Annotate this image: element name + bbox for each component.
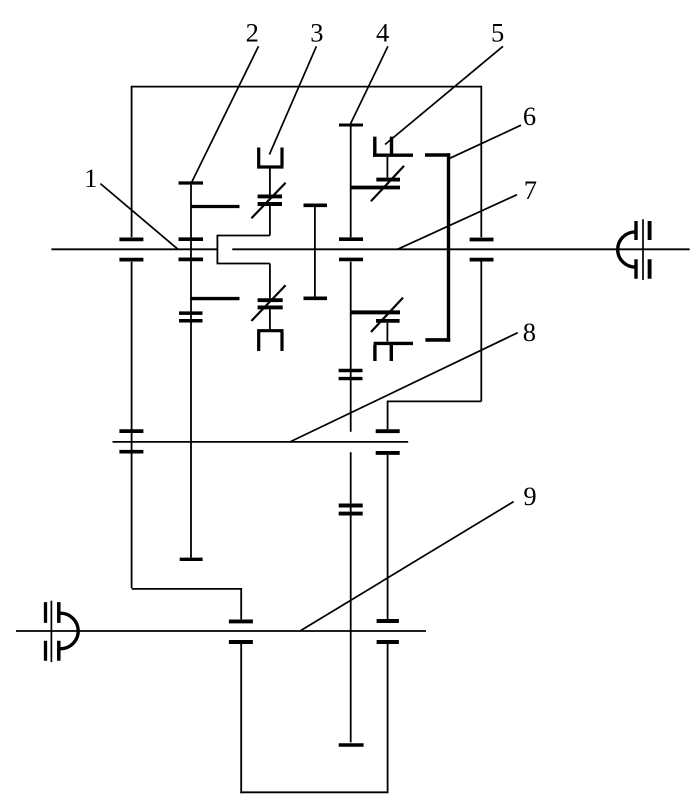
gear 4 top tooth dash xyxy=(339,124,363,127)
gear 2 top tooth dash xyxy=(179,181,204,184)
bearing B5 shaft III left xyxy=(229,621,253,642)
svg-text:3: 3 xyxy=(310,17,323,47)
gear 4 hub dash below shaft xyxy=(339,258,363,262)
svg-text:8: 8 xyxy=(523,317,536,347)
leader line 3 xyxy=(269,46,316,154)
leader line 4 xyxy=(351,46,388,123)
gear 5 lower stem xyxy=(386,323,388,342)
leader line 8 xyxy=(290,333,518,442)
leader line 7 xyxy=(398,195,518,250)
right coupling inner bars xyxy=(634,221,637,279)
leader line 5 xyxy=(385,46,503,144)
svg-text:7: 7 xyxy=(524,175,537,205)
gear 9 bottom tooth dash xyxy=(339,743,364,747)
housing right step xyxy=(388,400,482,402)
bearing B2 shaft I right xyxy=(470,240,494,260)
idler T-line bottom cap xyxy=(304,296,328,300)
clutch 3 lower bars xyxy=(258,300,283,307)
housing left wall xyxy=(132,86,242,589)
leader line 9 xyxy=(300,502,514,631)
clutch 5 upper wide bar xyxy=(351,186,400,190)
gear 2 hub dash below shaft xyxy=(179,258,204,262)
svg-text:4: 4 xyxy=(376,17,389,47)
left coupling center line xyxy=(50,601,52,662)
gear 4 column vertical xyxy=(350,127,352,743)
svg-text:6: 6 xyxy=(523,101,536,131)
idler T-line vertical xyxy=(314,205,316,298)
idler T-line top cap xyxy=(304,204,328,208)
shifter fork 3 lower xyxy=(257,331,283,351)
gear 4 collar double dash lower xyxy=(339,506,363,514)
svg-text:2: 2 xyxy=(246,17,259,47)
sleeve jog on shaft I xyxy=(217,236,270,264)
leader line 1 xyxy=(100,184,178,250)
bearing B3 shaft II left xyxy=(119,431,143,452)
clutch 5 lower slash xyxy=(371,298,403,332)
left coupling outer bars xyxy=(44,602,47,661)
svg-text:5: 5 xyxy=(491,17,504,47)
bracket 6 bottom arm xyxy=(425,338,450,342)
bearing B1 shaft I left xyxy=(119,239,143,259)
shaft I (input, main) xyxy=(51,248,689,250)
left coupling arc xyxy=(60,613,78,649)
clutch 5 lower wide bar xyxy=(351,310,400,314)
left coupling inner bars xyxy=(57,602,61,661)
housing left lower wall xyxy=(240,588,242,793)
housing bottom wall xyxy=(240,791,388,793)
clutch 3 upper slash xyxy=(251,183,285,219)
clutch 3 upper bars xyxy=(258,196,282,204)
shifter fork 5 upper xyxy=(373,137,413,156)
housing right wall xyxy=(480,86,482,402)
clutch 5 lower narrow bar xyxy=(376,319,400,323)
gear 3 column vertical upper xyxy=(269,169,271,236)
gear 4 hub dash above shaft xyxy=(339,237,363,241)
shaft II (intermediate) xyxy=(113,441,409,443)
svg-text:1: 1 xyxy=(84,163,97,193)
shifter fork 5 lower xyxy=(374,343,413,361)
gear 4 collar double dash upper xyxy=(339,371,363,379)
gear 2 hub dash above shaft xyxy=(179,237,204,241)
clutch 5 upper narrow bar xyxy=(376,178,400,182)
gear 2 lower hub bar xyxy=(191,297,240,300)
shaft III (output) xyxy=(16,630,426,632)
leader line 6 xyxy=(450,125,521,158)
bearing B4 shaft II right xyxy=(376,431,400,453)
bracket 6 top arm xyxy=(425,153,450,157)
gear 2 column vertical xyxy=(190,185,192,558)
shifter fork 3 upper xyxy=(257,148,283,168)
gear 5 upper stem xyxy=(386,157,388,178)
gear 3 column vertical lower xyxy=(269,264,271,330)
housing right lower wall xyxy=(387,401,389,793)
clutch 3 lower slash xyxy=(251,285,285,321)
clutch 5 upper slash xyxy=(371,166,404,201)
gear 2 upper hub bar xyxy=(191,205,240,208)
gear 2 bottom tooth dash xyxy=(180,558,203,561)
bearing B6 shaft III right xyxy=(377,621,399,642)
bracket 6 vertical xyxy=(447,153,450,342)
svg-text:9: 9 xyxy=(523,481,536,511)
gear 2 collar double dash xyxy=(179,313,203,321)
housing top wall xyxy=(132,86,482,88)
right coupling arc xyxy=(618,232,636,267)
leader line 2 xyxy=(191,46,258,183)
right coupling outer bars xyxy=(648,221,652,279)
right coupling center line xyxy=(642,219,644,280)
